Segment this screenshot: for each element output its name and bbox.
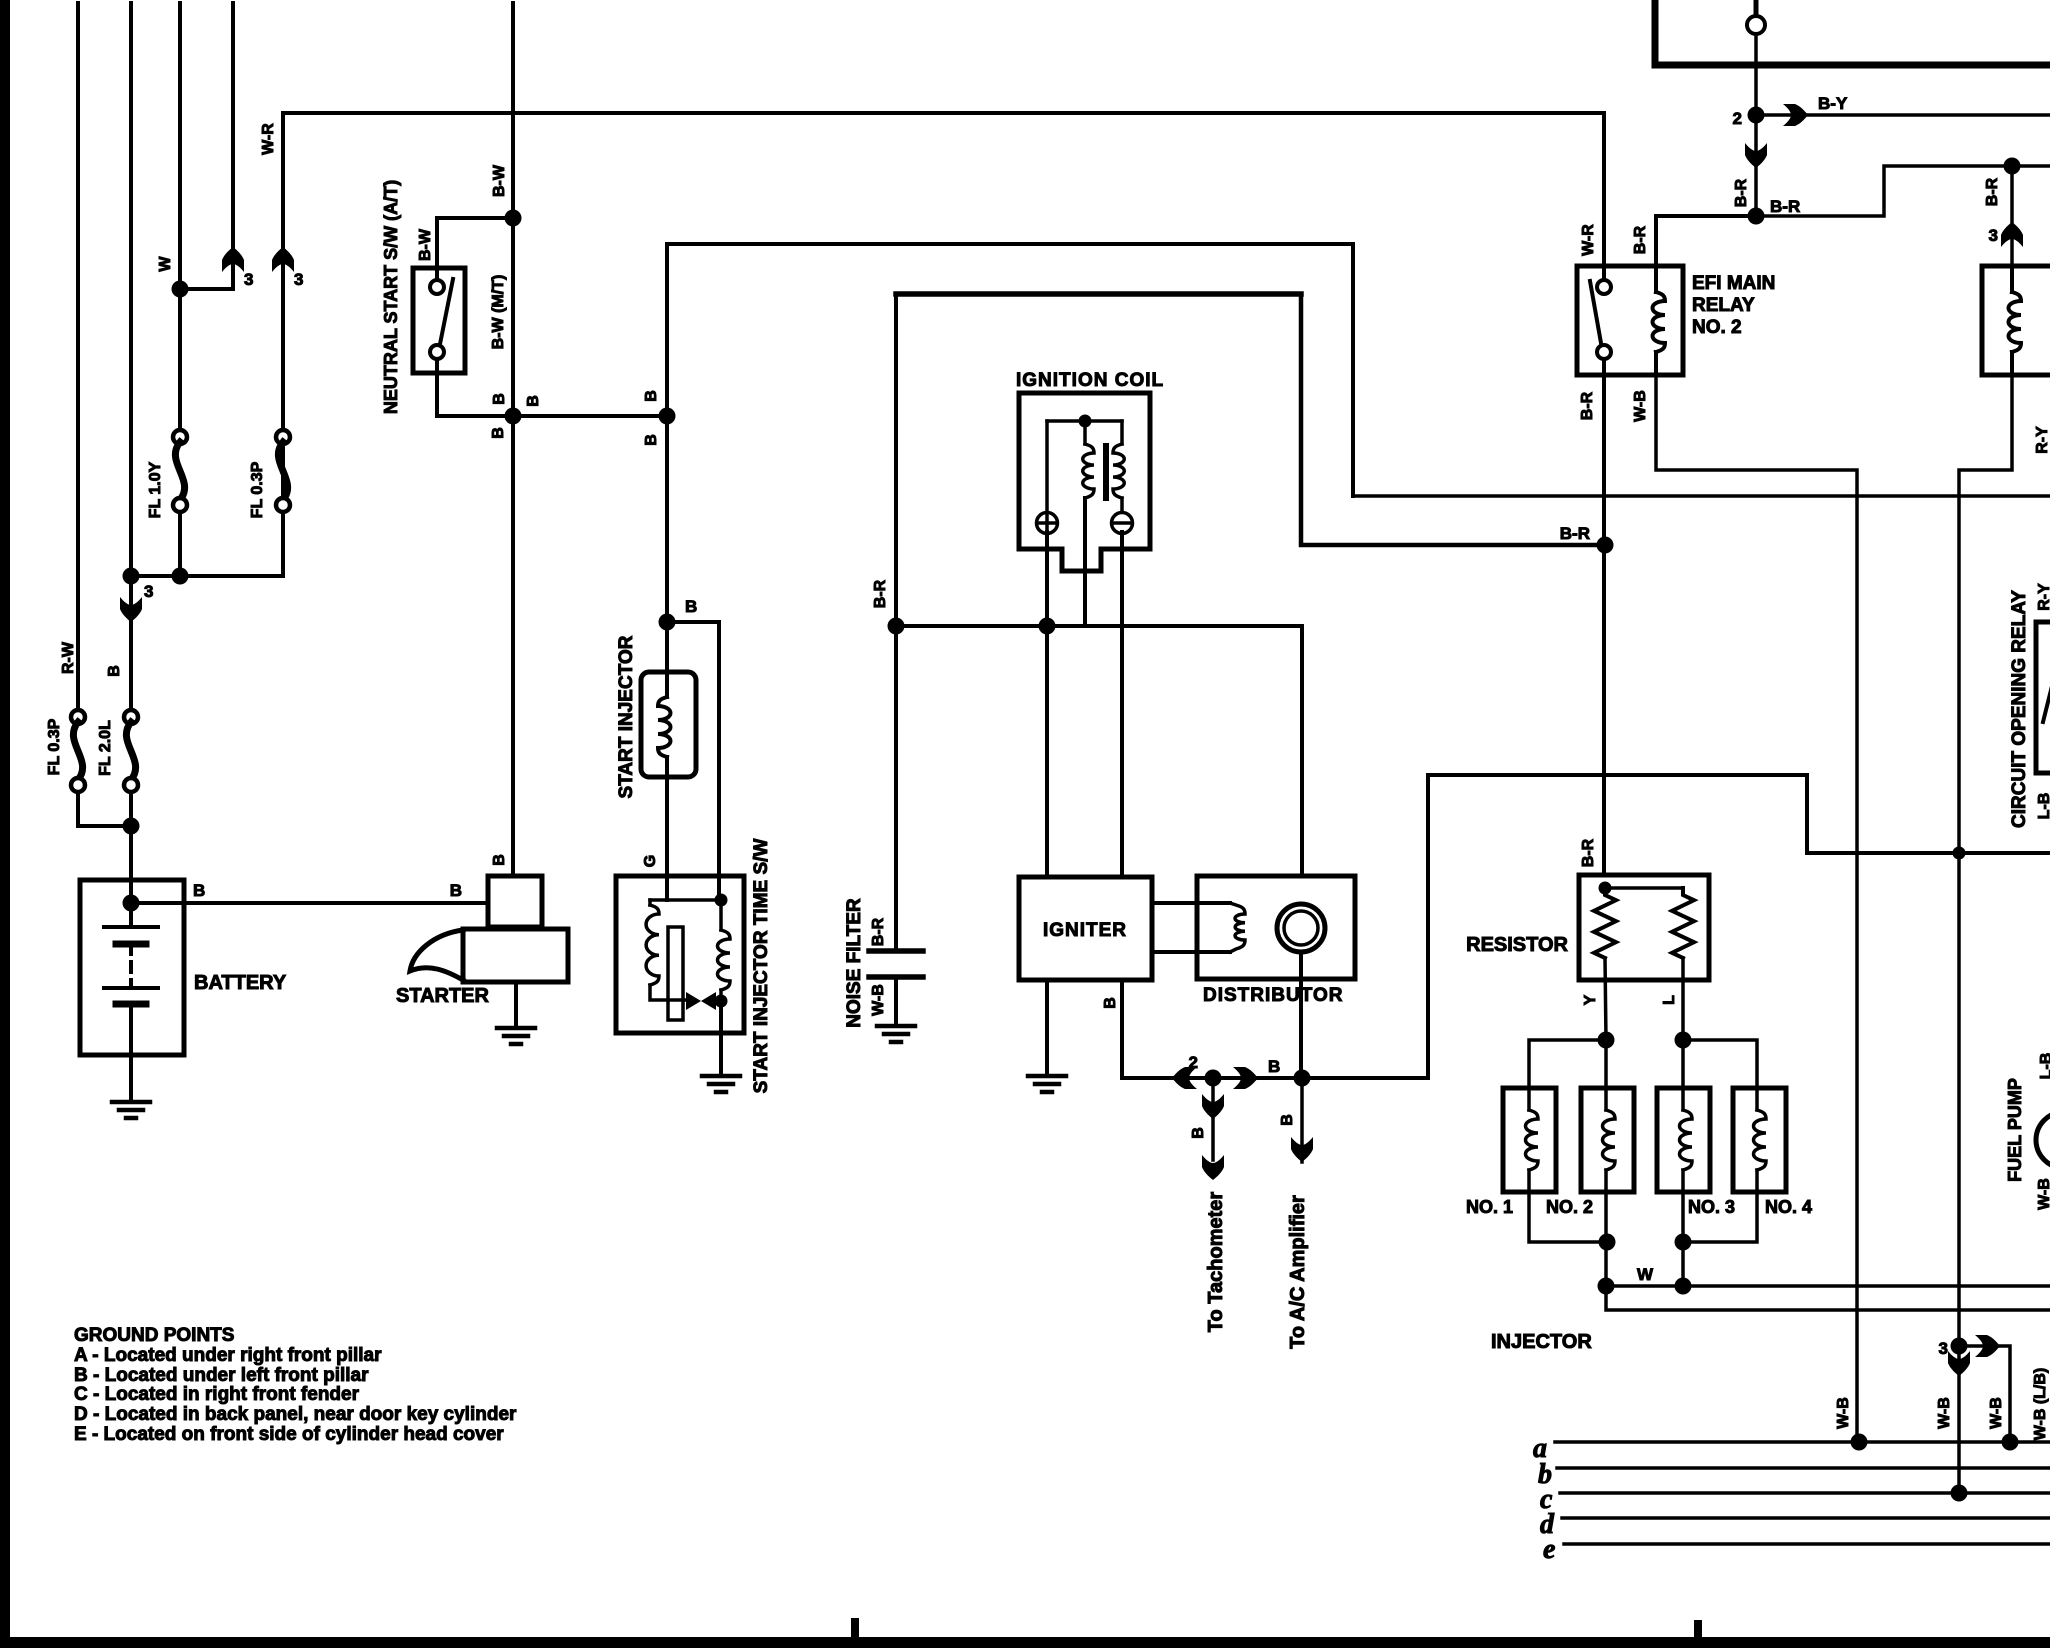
svg-text:To A/C Amplifier: To A/C Amplifier — [1287, 1195, 1309, 1349]
junction dot y=1040 left — [1598, 1032, 1615, 1049]
svg-text:B-W (M/T): B-W (M/T) — [490, 275, 507, 350]
svg-text:3: 3 — [1939, 1339, 1948, 1358]
ignition coil secondary winding — [1120, 421, 1124, 444]
svg-text:W: W — [157, 256, 174, 272]
injector no.1 box — [1503, 1088, 1556, 1192]
svg-text:R-Y: R-Y — [2036, 583, 2050, 611]
relay switch contact bottom — [1597, 345, 1611, 359]
junction dot relay no3 feed — [2004, 158, 2021, 175]
svg-text:To Tachometer: To Tachometer — [1205, 1192, 1227, 1333]
wire lower bus — [1606, 1286, 2050, 1310]
wire relay switch output B-R — [1602, 359, 1606, 875]
wire injector no.2 return — [1604, 1192, 1608, 1286]
wire B-R to EFI relay coil — [1656, 216, 1756, 266]
distributor pickup coil — [1230, 903, 1245, 952]
starter nose hook — [410, 930, 463, 980]
fuse FL 0.3P (upper) — [276, 430, 290, 444]
wire resistor right leg — [1681, 958, 1685, 1040]
svg-text:B: B — [643, 434, 660, 446]
svg-text:FL 2.0L: FL 2.0L — [97, 720, 114, 776]
svg-text:B: B — [491, 854, 508, 866]
wire from minus terminal down to igniter — [1120, 532, 1124, 877]
bus line c — [1560, 1491, 2050, 1495]
junction dot x=513 y=218 — [505, 210, 522, 227]
capacitor plate top — [869, 948, 923, 954]
resistor element left — [1594, 888, 1616, 958]
wire noise filter riser x=896 — [894, 294, 898, 951]
wire B-W main vertical x=513 — [511, 3, 515, 876]
wire neutral start switch bottom lead — [437, 359, 667, 416]
svg-text:B-R: B-R — [1733, 178, 1750, 207]
svg-text:B-Y: B-Y — [1818, 94, 1848, 113]
junction dot x=1047 y=626 — [1039, 618, 1056, 635]
wire resistor left leg — [1605, 958, 1606, 1040]
svg-text:B: B — [450, 881, 462, 900]
wire injector no.1 return — [1529, 1192, 1607, 1242]
svg-text:B-R: B-R — [1984, 177, 2001, 206]
injector no.3 coil — [1681, 1088, 1685, 1110]
svg-text:INJECTOR: INJECTOR — [1491, 1331, 1592, 1353]
junction dot x=180 y=289 — [172, 281, 189, 298]
svg-text:RESISTOR: RESISTOR — [1466, 934, 1568, 956]
wire vertical feed 1 (x=78) — [76, 3, 80, 710]
wire to tachometer — [1211, 1078, 1215, 1160]
svg-text:Y: Y — [1582, 994, 1599, 1005]
svg-text:W-R: W-R — [1580, 224, 1597, 256]
wire noise-filter bus y=626 — [896, 624, 1302, 628]
svg-text:B: B — [685, 597, 697, 616]
ground (time switch) — [702, 1074, 740, 1079]
svg-text:START INJECTOR: START INJECTOR — [616, 635, 637, 798]
wire relay coil return W-B — [1656, 375, 1857, 1442]
svg-text:CIRCUIT OPENING RELAY: CIRCUIT OPENING RELAY — [2009, 590, 2030, 828]
wire start injector vertical x=667 (lower, into time switch) — [665, 757, 669, 900]
wire ignition coil center tap — [1083, 498, 1087, 626]
svg-text:B: B — [491, 393, 508, 405]
wire igniter right lead down and east — [1122, 980, 1428, 1078]
svg-text:NO. 1: NO. 1 — [1466, 1197, 1513, 1217]
switch contact top — [430, 280, 444, 294]
svg-text:3: 3 — [144, 582, 153, 601]
svg-text:D - Located in back panel, nea: D - Located in back panel, near door key… — [74, 1404, 517, 1425]
arrow connector 3 (up) — [222, 247, 244, 272]
relay no.3 coil — [2010, 266, 2014, 292]
start injector coil — [658, 697, 671, 757]
svg-text:e: e — [1543, 1534, 1555, 1565]
bus line e — [1564, 1542, 2050, 1546]
relay no.3 box (cut at edge) — [1982, 266, 2050, 375]
svg-text:IGNITER: IGNITER — [1043, 920, 1127, 941]
junction dot x=131 y=576 — [123, 568, 140, 585]
starter body — [463, 929, 568, 982]
svg-text:NOISE FILTER: NOISE FILTER — [844, 898, 865, 1028]
svg-text:W-B: W-B — [870, 984, 887, 1016]
fuse FL 1.0Y — [173, 430, 187, 444]
junction dot W bus left — [1598, 1278, 1615, 1295]
svg-text:3: 3 — [294, 270, 303, 289]
circuit opening relay box (cut at edge) — [2036, 622, 2050, 773]
junction dot x=667 y=622 — [659, 614, 676, 631]
wire injector no.3 return — [1681, 1192, 1685, 1286]
svg-text:BATTERY: BATTERY — [194, 972, 287, 994]
junction dot battery positive — [123, 895, 140, 912]
junction dot x=1605 y=545 — [1597, 537, 1614, 554]
ground (starter) — [497, 1026, 535, 1031]
wire B-R jog to relay no.3 — [1756, 166, 2050, 216]
junction dot 2 — [1748, 107, 1765, 124]
frame left border bar — [0, 0, 10, 1648]
plus terminal — [1037, 513, 1058, 534]
svg-text:B-R: B-R — [1632, 225, 1649, 254]
wire horizontal y=294 — [896, 291, 1301, 297]
distributor rotor inner — [1284, 911, 1318, 945]
EFI main relay box — [1577, 266, 1683, 375]
wire injector no.3 feed — [1681, 1040, 1685, 1088]
svg-text:B: B — [490, 427, 507, 439]
svg-text:A - Located under right front: A - Located under right front pillar — [74, 1345, 382, 1366]
wire B-Y line — [1756, 113, 2050, 117]
injector no.2 box — [1581, 1088, 1634, 1192]
svg-text:B-W: B-W — [491, 164, 508, 197]
svg-text:FUEL PUMP: FUEL PUMP — [2005, 1078, 2025, 1182]
capacitor plate bottom — [869, 974, 923, 980]
starter solenoid box — [488, 876, 542, 927]
svg-text:W-R: W-R — [260, 123, 277, 155]
svg-text:B: B — [1279, 1114, 1296, 1126]
svg-text:B: B — [525, 395, 542, 407]
minus terminal — [1120, 498, 1124, 514]
wire fuse to battery — [129, 792, 133, 902]
svg-text:L-B: L-B — [2036, 793, 2050, 820]
svg-text:W-B: W-B — [1988, 1397, 2005, 1429]
svg-text:B-R: B-R — [870, 917, 887, 946]
relay coil — [1654, 266, 1658, 292]
fuel pump motor circle (cut at edge) — [2036, 1112, 2050, 1168]
switch contact bottom — [430, 345, 444, 359]
wire time switch to ground — [719, 1003, 723, 1076]
arrow right — [1233, 1067, 1258, 1089]
junction dot x=131 y=826 — [123, 818, 140, 835]
arrow left — [1172, 1067, 1197, 1089]
svg-text:B-R: B-R — [1560, 524, 1590, 543]
bus line d — [1562, 1516, 2050, 1520]
injector no.4 coil — [1755, 1088, 1759, 1110]
svg-text:2: 2 — [1733, 109, 1742, 128]
wire injector no.2 feed — [1604, 1040, 1608, 1088]
ignition coil box (with bottom notch) — [1019, 393, 1150, 571]
time switch contact (bowtie) — [686, 992, 716, 1010]
svg-text:W-B: W-B — [1835, 1397, 1852, 1429]
svg-text:NO. 2: NO. 2 — [1546, 1197, 1593, 1217]
svg-text:2: 2 — [1189, 1053, 1198, 1072]
junction dot x=180 y=576 — [172, 568, 189, 585]
svg-text:E - Located on front side of c: E - Located on front side of cylinder he… — [74, 1424, 504, 1445]
wire connector 3 right arm — [1959, 1346, 2010, 1442]
wire horizontal y=496 — [1353, 494, 2050, 498]
svg-text:W-B (L/B): W-B (L/B) — [2032, 1368, 2049, 1441]
junction dot connector 3 — [1951, 1338, 1968, 1355]
frame tick mark 1 — [851, 1618, 859, 1638]
battery box — [80, 880, 184, 1055]
svg-text:B - Located under left front p: B - Located under left front pillar — [74, 1365, 369, 1386]
junction dot y=1040 right — [1675, 1032, 1692, 1049]
svg-text:FL 0.3P: FL 0.3P — [46, 718, 63, 775]
ground points legend — [74, 1325, 517, 1445]
time switch heater coil (left) — [648, 900, 652, 905]
junction dot returns right — [1675, 1234, 1692, 1251]
junction dot B-R — [1748, 208, 1765, 225]
ground (igniter) — [1028, 1074, 1066, 1079]
relay switch lever — [1590, 281, 1601, 343]
junction dot x=513 y=422 — [505, 408, 522, 425]
junction dot resistor top — [1599, 882, 1612, 895]
relay switch contact top — [1597, 280, 1611, 294]
wire injector no.4 feed — [1683, 1040, 1757, 1088]
svg-text:EFI MAIN: EFI MAIN — [1692, 273, 1775, 294]
wire injector no.4 return — [1683, 1192, 1757, 1242]
svg-text:W-B: W-B — [1936, 1397, 1953, 1429]
wire igniter left to ground — [1045, 980, 1049, 1076]
svg-text:B: B — [1102, 997, 1119, 1009]
resistor box — [1579, 875, 1709, 980]
junction dot a x=2010 — [2002, 1434, 2019, 1451]
wire junction bus y=576 — [131, 574, 283, 578]
svg-text:NO. 4: NO. 4 — [1765, 1197, 1812, 1217]
svg-text:B-R: B-R — [1579, 391, 1596, 420]
junction dot inside ignition coil — [1079, 415, 1092, 428]
wire B-R link from top bus to relay output — [1301, 294, 1605, 545]
wire igniter-distributor pickup lower — [1152, 950, 1230, 954]
junction dot a x=1859 — [1851, 1434, 1868, 1451]
junction dot c — [1951, 1485, 1968, 1502]
svg-text:3: 3 — [244, 270, 253, 289]
svg-text:C - Located in right front fen: C - Located in right front fender — [74, 1384, 360, 1405]
junction dot 2-way arrows — [1205, 1070, 1222, 1087]
wire start injector vertical x=667 (upper) — [665, 244, 669, 697]
wire W bus — [1606, 1284, 2050, 1288]
wire vertical feed 4 (x=233) with connector-3 up arrow — [180, 3, 233, 289]
ignition coil primary winding — [1083, 421, 1087, 444]
neutral start switch box — [413, 268, 465, 373]
svg-text:B: B — [1268, 1057, 1280, 1076]
svg-text:NO. 2: NO. 2 — [1692, 317, 1742, 338]
wire capacitor to ground — [894, 977, 898, 1026]
resistor element right — [1672, 888, 1694, 958]
svg-text:L-B: L-B — [2038, 1053, 2050, 1080]
wire vertical feed 2 (x=131) — [129, 3, 133, 576]
arrow down on B-R wire — [1745, 143, 1767, 168]
time switch bimetal strip — [668, 927, 683, 1020]
svg-text:B: B — [1190, 1127, 1207, 1139]
start injector time switch box — [616, 876, 744, 1033]
svg-text:DISTRIBUTOR: DISTRIBUTOR — [1203, 985, 1343, 1006]
time switch coil (right) — [719, 900, 723, 930]
wire neutral start switch top lead — [437, 218, 513, 280]
wire W-R down to switch — [1602, 113, 1606, 280]
svg-text:NO. 3: NO. 3 — [1688, 1197, 1735, 1217]
wire connector down to junction 2 — [1754, 34, 1758, 216]
battery center link dashes — [129, 902, 133, 927]
svg-text:R-Y: R-Y — [2034, 426, 2050, 454]
junction dot x=667 y=422 — [659, 408, 676, 425]
junction dot time switch bottom right — [715, 995, 728, 1008]
svg-text:B-W: B-W — [417, 228, 434, 261]
bus line b — [1557, 1466, 2050, 1470]
svg-text:B-R: B-R — [1580, 838, 1597, 867]
svg-text:B: B — [106, 665, 123, 677]
bus line a — [1555, 1440, 2050, 1444]
injector no.4 box — [1733, 1088, 1786, 1192]
wire center tap down to distributor — [1300, 626, 1304, 876]
battery plates — [104, 925, 158, 929]
wire W-R riser (x=283) — [281, 113, 285, 576]
svg-text:L: L — [1661, 995, 1678, 1005]
svg-text:G: G — [642, 855, 659, 867]
injector no.3 box — [1657, 1088, 1710, 1192]
ground (battery) — [112, 1100, 150, 1105]
fuse FL 0.3P (left pair) — [71, 710, 85, 724]
wire injector no.1 feed — [1529, 1040, 1606, 1088]
svg-text:GROUND POINTS: GROUND POINTS — [74, 1325, 234, 1346]
wire horizontal link to circuit opening relay — [1428, 775, 2050, 1078]
svg-text:RELAY: RELAY — [1692, 295, 1755, 316]
svg-text:W: W — [1637, 1265, 1654, 1284]
wire fuse to junction y=576 — [178, 512, 182, 576]
wire from fuse to battery junction — [78, 792, 131, 826]
svg-text:STARTER: STARTER — [396, 985, 490, 1007]
junction dot A/C branch — [1294, 1070, 1311, 1087]
igniter box — [1019, 877, 1152, 980]
wire relay no3 coil feed — [2010, 166, 2014, 266]
svg-text:B-R: B-R — [872, 579, 889, 608]
svg-text:B: B — [643, 390, 660, 402]
wire with connector-3 arrow down — [129, 576, 133, 710]
ground (noise filter) — [877, 1024, 915, 1029]
junction dot x=896 y=626 — [888, 618, 905, 635]
wire horizontal y=244 — [667, 244, 1353, 496]
svg-text:B: B — [193, 881, 205, 900]
wire branch to time switch x=719 — [667, 622, 719, 898]
frame bottom border bar — [0, 1637, 2050, 1648]
wire thick top corner — [1655, 2, 2050, 65]
wire starter to ground — [514, 983, 518, 1028]
wire to plus terminal — [1045, 421, 1049, 514]
wire connector 3 down to line c — [1957, 1346, 1961, 1493]
svg-text:3: 3 — [1989, 226, 1998, 245]
svg-text:FL 0.3P: FL 0.3P — [249, 461, 266, 518]
arrow connector 3 (down) — [120, 597, 142, 622]
junction dot time switch top right — [715, 894, 728, 907]
connector circle — [1754, 2, 1759, 16]
wire primary feed inside coil — [1047, 419, 1122, 423]
svg-text:IGNITION COIL: IGNITION COIL — [1016, 370, 1164, 391]
svg-text:W-B: W-B — [2036, 1178, 2050, 1210]
wire long horizontal W-R line y=113 — [283, 111, 1604, 115]
wire to A/C amplifier — [1300, 1078, 1304, 1162]
arrow connector 3 (up) on W-R riser — [272, 247, 294, 272]
circuit opening relay lever sliver — [2043, 686, 2050, 722]
junction dot y=853 — [1953, 847, 1966, 860]
wire B battery to starter — [131, 901, 488, 905]
junction dot returns left — [1599, 1234, 1616, 1251]
fuse FL 2.0L — [124, 710, 138, 724]
svg-text:NEUTRAL START S/W (A/T): NEUTRAL START S/W (A/T) — [381, 180, 401, 414]
svg-text:W-B: W-B — [1632, 390, 1649, 422]
wire vertical feed 3 (x=180) — [178, 3, 182, 430]
injector no.1 coil — [1527, 1088, 1531, 1110]
injector no.2 coil — [1604, 1088, 1608, 1110]
svg-text:FL 1.0Y: FL 1.0Y — [147, 461, 164, 518]
wire from plus terminal down to igniter — [1045, 532, 1049, 877]
switch lever — [440, 279, 453, 344]
time switch inner top link — [650, 898, 721, 902]
wire igniter-distributor pickup upper — [1152, 901, 1230, 905]
wire battery to ground — [129, 1055, 133, 1102]
start injector body — [641, 672, 696, 777]
svg-text:B-R: B-R — [1770, 197, 1800, 216]
resistor top link — [1605, 886, 1683, 890]
ignition coil core bar — [1103, 446, 1109, 498]
frame tick mark 2 — [1694, 1620, 1702, 1638]
junction dot W bus right — [1675, 1278, 1692, 1295]
svg-text:START INJECTOR TIME S/W: START INJECTOR TIME S/W — [751, 839, 772, 1094]
wire rotor to junction — [1299, 952, 1303, 1078]
distributor box — [1197, 876, 1355, 979]
wire relay no.3 coil return (W-B) — [1959, 375, 2012, 1346]
distributor rotor outer — [1277, 904, 1325, 952]
svg-text:R-W: R-W — [60, 641, 77, 674]
